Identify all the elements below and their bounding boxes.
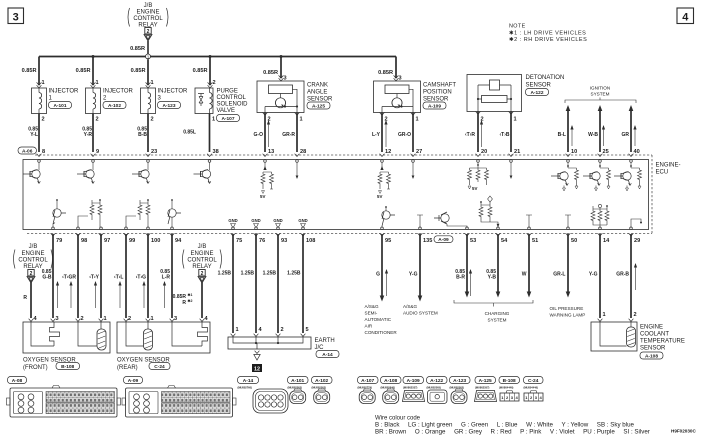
svg-text:AIR: AIR	[365, 324, 373, 329]
svg-text:29: 29	[634, 238, 640, 244]
svg-text:A-101: A-101	[53, 103, 66, 109]
svg-text:A-108: A-108	[384, 378, 397, 384]
svg-text:2: 2	[201, 271, 204, 277]
svg-text:5V: 5V	[377, 194, 382, 199]
svg-text:A-09: A-09	[438, 237, 449, 243]
svg-text:A-14: A-14	[322, 352, 333, 358]
svg-text:54: 54	[501, 238, 508, 244]
svg-text:PURGE: PURGE	[217, 89, 238, 95]
svg-text:50: 50	[571, 238, 577, 244]
svg-text:(MU802565): (MU802565)	[427, 386, 442, 390]
svg-text:C-24: C-24	[528, 378, 539, 384]
svg-text:A-107: A-107	[221, 116, 234, 122]
svg-text:TEMPERATURE: TEMPERATURE	[640, 339, 685, 345]
svg-text:A-06: A-06	[22, 149, 33, 155]
svg-text:✱1: ✱1	[188, 293, 193, 297]
svg-text:A-102: A-102	[315, 378, 328, 384]
svg-text:3: 3	[56, 316, 59, 322]
svg-text:A-109: A-109	[407, 378, 420, 384]
svg-text:0.85R: 0.85R	[22, 68, 37, 74]
svg-text:100: 100	[151, 238, 160, 244]
svg-text:BR : Brown O : Orange: BR : Brown O : Orange GR : Grey R : Red …	[375, 429, 650, 435]
svg-text:R: R	[182, 300, 186, 306]
svg-text:1: 1	[151, 316, 154, 322]
svg-text:98: 98	[81, 238, 87, 244]
svg-text:A-109: A-109	[428, 104, 441, 110]
svg-text:WARNING LAMP: WARNING LAMP	[550, 313, 586, 318]
svg-text:H9F02030C: H9F02030C	[671, 429, 696, 434]
svg-text:5V: 5V	[260, 194, 265, 199]
svg-text:12: 12	[254, 367, 260, 373]
svg-text:53: 53	[470, 238, 476, 244]
svg-text:A-125: A-125	[312, 104, 325, 110]
svg-text:GR-R: GR-R	[282, 132, 295, 138]
svg-text:99: 99	[129, 238, 135, 244]
svg-text:5V: 5V	[472, 186, 477, 191]
svg-text:1: 1	[104, 316, 107, 322]
svg-text:✱2 : RH DRIVE VEHICLES: ✱2 : RH DRIVE VEHICLES	[509, 36, 587, 43]
svg-text:ENGINE-: ENGINE-	[656, 163, 681, 169]
svg-text:1: 1	[514, 117, 517, 123]
svg-text:97: 97	[104, 238, 110, 244]
svg-text:SENSOR: SENSOR	[423, 97, 449, 103]
svg-text:0.85R: 0.85R	[378, 70, 393, 76]
svg-text:EARTH: EARTH	[315, 338, 335, 344]
svg-text:2: 2	[96, 117, 99, 123]
svg-text:(MU802760): (MU802760)	[238, 386, 253, 390]
svg-text:CHARGING: CHARGING	[485, 311, 510, 316]
svg-text:GR-L: GR-L	[553, 272, 565, 278]
svg-text:1.25B: 1.25B	[287, 271, 301, 277]
svg-text:A-102: A-102	[108, 103, 121, 109]
svg-text:2: 2	[151, 117, 154, 123]
svg-text:1: 1	[212, 117, 215, 123]
svg-text:1.25B: 1.25B	[263, 271, 277, 277]
svg-text:✱2: ✱2	[188, 299, 193, 303]
svg-text:95: 95	[385, 238, 391, 244]
svg-text:CRANK: CRANK	[307, 83, 328, 89]
svg-text:C-24: C-24	[154, 364, 165, 370]
svg-text:0.85R: 0.85R	[263, 70, 278, 76]
svg-text:INJECTOR: INJECTOR	[103, 89, 134, 95]
svg-text:1: 1	[42, 80, 45, 86]
svg-text:‹T›G: ‹T›G	[136, 275, 146, 281]
svg-text:✱1 : LH DRIVE VEHICLES: ✱1 : LH DRIVE VEHICLES	[509, 30, 586, 37]
svg-text:12: 12	[385, 149, 391, 155]
svg-text:SENSOR: SENSOR	[307, 97, 333, 103]
svg-text:A-122: A-122	[430, 378, 443, 384]
svg-text:13: 13	[268, 149, 274, 155]
svg-text:A-09: A-09	[128, 378, 139, 384]
svg-text:0.85R: 0.85R	[193, 68, 208, 74]
svg-text:Y-L: Y-L	[30, 132, 38, 138]
svg-text:ENGINE: ENGINE	[190, 251, 213, 257]
svg-text:J/B: J/B	[144, 3, 153, 9]
svg-text:25: 25	[603, 149, 609, 155]
svg-text:ENGINE: ENGINE	[640, 325, 663, 331]
svg-text:B-B: B-B	[138, 132, 147, 138]
svg-text:SENSOR: SENSOR	[640, 346, 666, 352]
svg-text:SEMI-: SEMI-	[365, 311, 378, 316]
svg-text:0.85L: 0.85L	[183, 130, 196, 136]
svg-text:1: 1	[416, 117, 419, 123]
svg-text:COOLANT: COOLANT	[640, 332, 669, 338]
svg-text:A-122: A-122	[530, 90, 543, 96]
svg-text:2: 2	[147, 29, 150, 35]
svg-text:CONDITIONER: CONDITIONER	[365, 330, 398, 335]
svg-text:1.25B: 1.25B	[241, 271, 255, 277]
svg-text:A-123: A-123	[453, 378, 466, 384]
svg-text:ENGINE: ENGINE	[136, 10, 159, 16]
svg-text:ECU: ECU	[656, 170, 669, 176]
svg-text:5: 5	[306, 327, 309, 333]
svg-text:A-14: A-14	[243, 378, 254, 384]
svg-text:CONTROL: CONTROL	[187, 258, 217, 264]
svg-text:‹T›GR: ‹T›GR	[62, 275, 76, 281]
svg-text:75: 75	[236, 238, 242, 244]
svg-text:SOLENOID: SOLENOID	[217, 102, 249, 108]
svg-text:2: 2	[281, 327, 284, 333]
svg-text:VALVE: VALVE	[217, 108, 235, 114]
svg-text:B-108: B-108	[503, 378, 516, 384]
svg-text:‹T›Y: ‹T›Y	[89, 275, 99, 281]
svg-text:4: 4	[682, 12, 689, 24]
svg-text:ENGINE: ENGINE	[21, 251, 44, 257]
svg-text:(REAR): (REAR)	[117, 365, 138, 371]
svg-text:(FRONT): (FRONT)	[23, 365, 48, 371]
svg-text:Y-R: Y-R	[84, 132, 93, 138]
svg-text:SYSTEM: SYSTEM	[591, 92, 610, 97]
svg-text:(MU804446): (MU804446)	[524, 386, 539, 390]
svg-text:AUDIO SYSTEM: AUDIO SYSTEM	[403, 311, 438, 316]
svg-text:(MU802557): (MU802557)	[475, 386, 490, 390]
svg-text:108: 108	[306, 238, 315, 244]
svg-text:2: 2	[634, 312, 637, 318]
svg-text:CAMSHAFT: CAMSHAFT	[423, 83, 456, 89]
svg-text:135: 135	[423, 238, 432, 244]
svg-text:GR-B: GR-B	[616, 272, 629, 278]
svg-text:A-123: A-123	[162, 103, 175, 109]
svg-text:0.85R: 0.85R	[76, 68, 91, 74]
svg-text:W: W	[522, 272, 527, 278]
svg-text:AUTOMATIC: AUTOMATIC	[365, 317, 392, 322]
svg-text:94: 94	[175, 238, 182, 244]
svg-text:2: 2	[213, 80, 216, 86]
svg-text:INJECTOR: INJECTOR	[49, 89, 80, 95]
svg-text:Y-G: Y-G	[589, 272, 598, 278]
svg-text:SYSTEM: SYSTEM	[488, 318, 507, 323]
svg-text:G-B: G-B	[42, 275, 52, 281]
svg-text:L-R: L-R	[162, 275, 171, 281]
svg-text:1: 1	[151, 80, 154, 86]
svg-text:ANGLE: ANGLE	[307, 90, 327, 96]
svg-text:21: 21	[514, 149, 520, 155]
svg-text:3: 3	[399, 76, 402, 82]
svg-text:51: 51	[532, 238, 538, 244]
svg-text:79: 79	[56, 238, 62, 244]
svg-text:‹T›L: ‹T›L	[114, 275, 123, 281]
svg-text:A-108: A-108	[645, 354, 658, 360]
svg-text:GND: GND	[251, 218, 260, 223]
svg-text:A-125: A-125	[479, 378, 492, 384]
svg-text:A/S&G: A/S&G	[365, 304, 379, 309]
svg-text:1: 1	[236, 327, 239, 333]
svg-text:GND: GND	[273, 218, 282, 223]
svg-text:28: 28	[300, 149, 306, 155]
svg-text:1: 1	[96, 80, 99, 86]
svg-text:9: 9	[96, 149, 99, 155]
svg-text:1: 1	[300, 117, 303, 123]
svg-text:B-L: B-L	[558, 132, 566, 138]
svg-text:2: 2	[81, 316, 84, 322]
svg-text:J/B: J/B	[29, 244, 38, 250]
svg-text:A-107: A-107	[361, 378, 374, 384]
svg-text:R: R	[23, 295, 27, 301]
svg-text:0.85R: 0.85R	[130, 46, 145, 52]
svg-text:20: 20	[481, 149, 487, 155]
svg-text:SENSOR: SENSOR	[526, 83, 552, 89]
svg-text:OIL PRESSURE: OIL PRESSURE	[550, 306, 584, 311]
svg-text:GR: GR	[622, 132, 630, 138]
svg-text:L-Y: L-Y	[372, 132, 381, 138]
svg-text:38: 38	[213, 149, 219, 155]
svg-text:B : Black LG : Light green: B : Black LG : Light green G : Green L :…	[375, 422, 635, 429]
svg-text:2: 2	[30, 271, 33, 277]
svg-text:G: G	[376, 272, 380, 278]
svg-text:14: 14	[603, 238, 610, 244]
svg-text:GR-O: GR-O	[398, 132, 411, 138]
svg-text:0.85R: 0.85R	[131, 68, 146, 74]
svg-text:GND: GND	[228, 218, 237, 223]
svg-text:Y-G: Y-G	[409, 272, 418, 278]
svg-text:W-B: W-B	[588, 132, 598, 138]
svg-text:8: 8	[42, 149, 45, 155]
svg-text:2: 2	[42, 117, 45, 123]
svg-text:40: 40	[634, 149, 640, 155]
svg-text:CONTROL: CONTROL	[18, 258, 48, 264]
svg-text:(MU802537): (MU802537)	[403, 386, 418, 390]
svg-text:GND: GND	[298, 218, 307, 223]
svg-text:93: 93	[281, 238, 287, 244]
svg-text:B-R: B-R	[456, 275, 465, 281]
svg-text:Y-B: Y-B	[488, 275, 497, 281]
svg-text:A/S&G: A/S&G	[403, 304, 417, 309]
svg-text:A-08: A-08	[12, 378, 23, 384]
svg-text:DETONATION: DETONATION	[526, 75, 565, 81]
svg-text:‹T›B: ‹T›B	[500, 132, 510, 138]
svg-text:INJECTOR: INJECTOR	[158, 89, 189, 95]
svg-text:1: 1	[603, 312, 606, 318]
svg-text:1.25B: 1.25B	[218, 271, 232, 277]
svg-text:A-101: A-101	[291, 378, 304, 384]
svg-text:‹T›R: ‹T›R	[465, 132, 475, 138]
svg-text:J/B: J/B	[198, 244, 207, 250]
svg-text:27: 27	[416, 149, 422, 155]
svg-text:NOTE: NOTE	[509, 24, 526, 30]
svg-text:J/C: J/C	[315, 345, 325, 351]
svg-text:CONTROL: CONTROL	[133, 16, 163, 22]
svg-text:B-108: B-108	[61, 364, 74, 370]
svg-text:10: 10	[571, 149, 577, 155]
svg-text:3: 3	[13, 12, 19, 24]
svg-text:CONTROL: CONTROL	[217, 95, 247, 101]
svg-text:76: 76	[259, 238, 265, 244]
svg-text:3: 3	[284, 76, 287, 82]
svg-text:POSITION: POSITION	[423, 90, 452, 96]
svg-text:IGNITION: IGNITION	[590, 86, 610, 91]
svg-text:(MU804446): (MU804446)	[499, 386, 514, 390]
svg-text:G-O: G-O	[254, 132, 264, 138]
svg-text:23: 23	[151, 149, 157, 155]
